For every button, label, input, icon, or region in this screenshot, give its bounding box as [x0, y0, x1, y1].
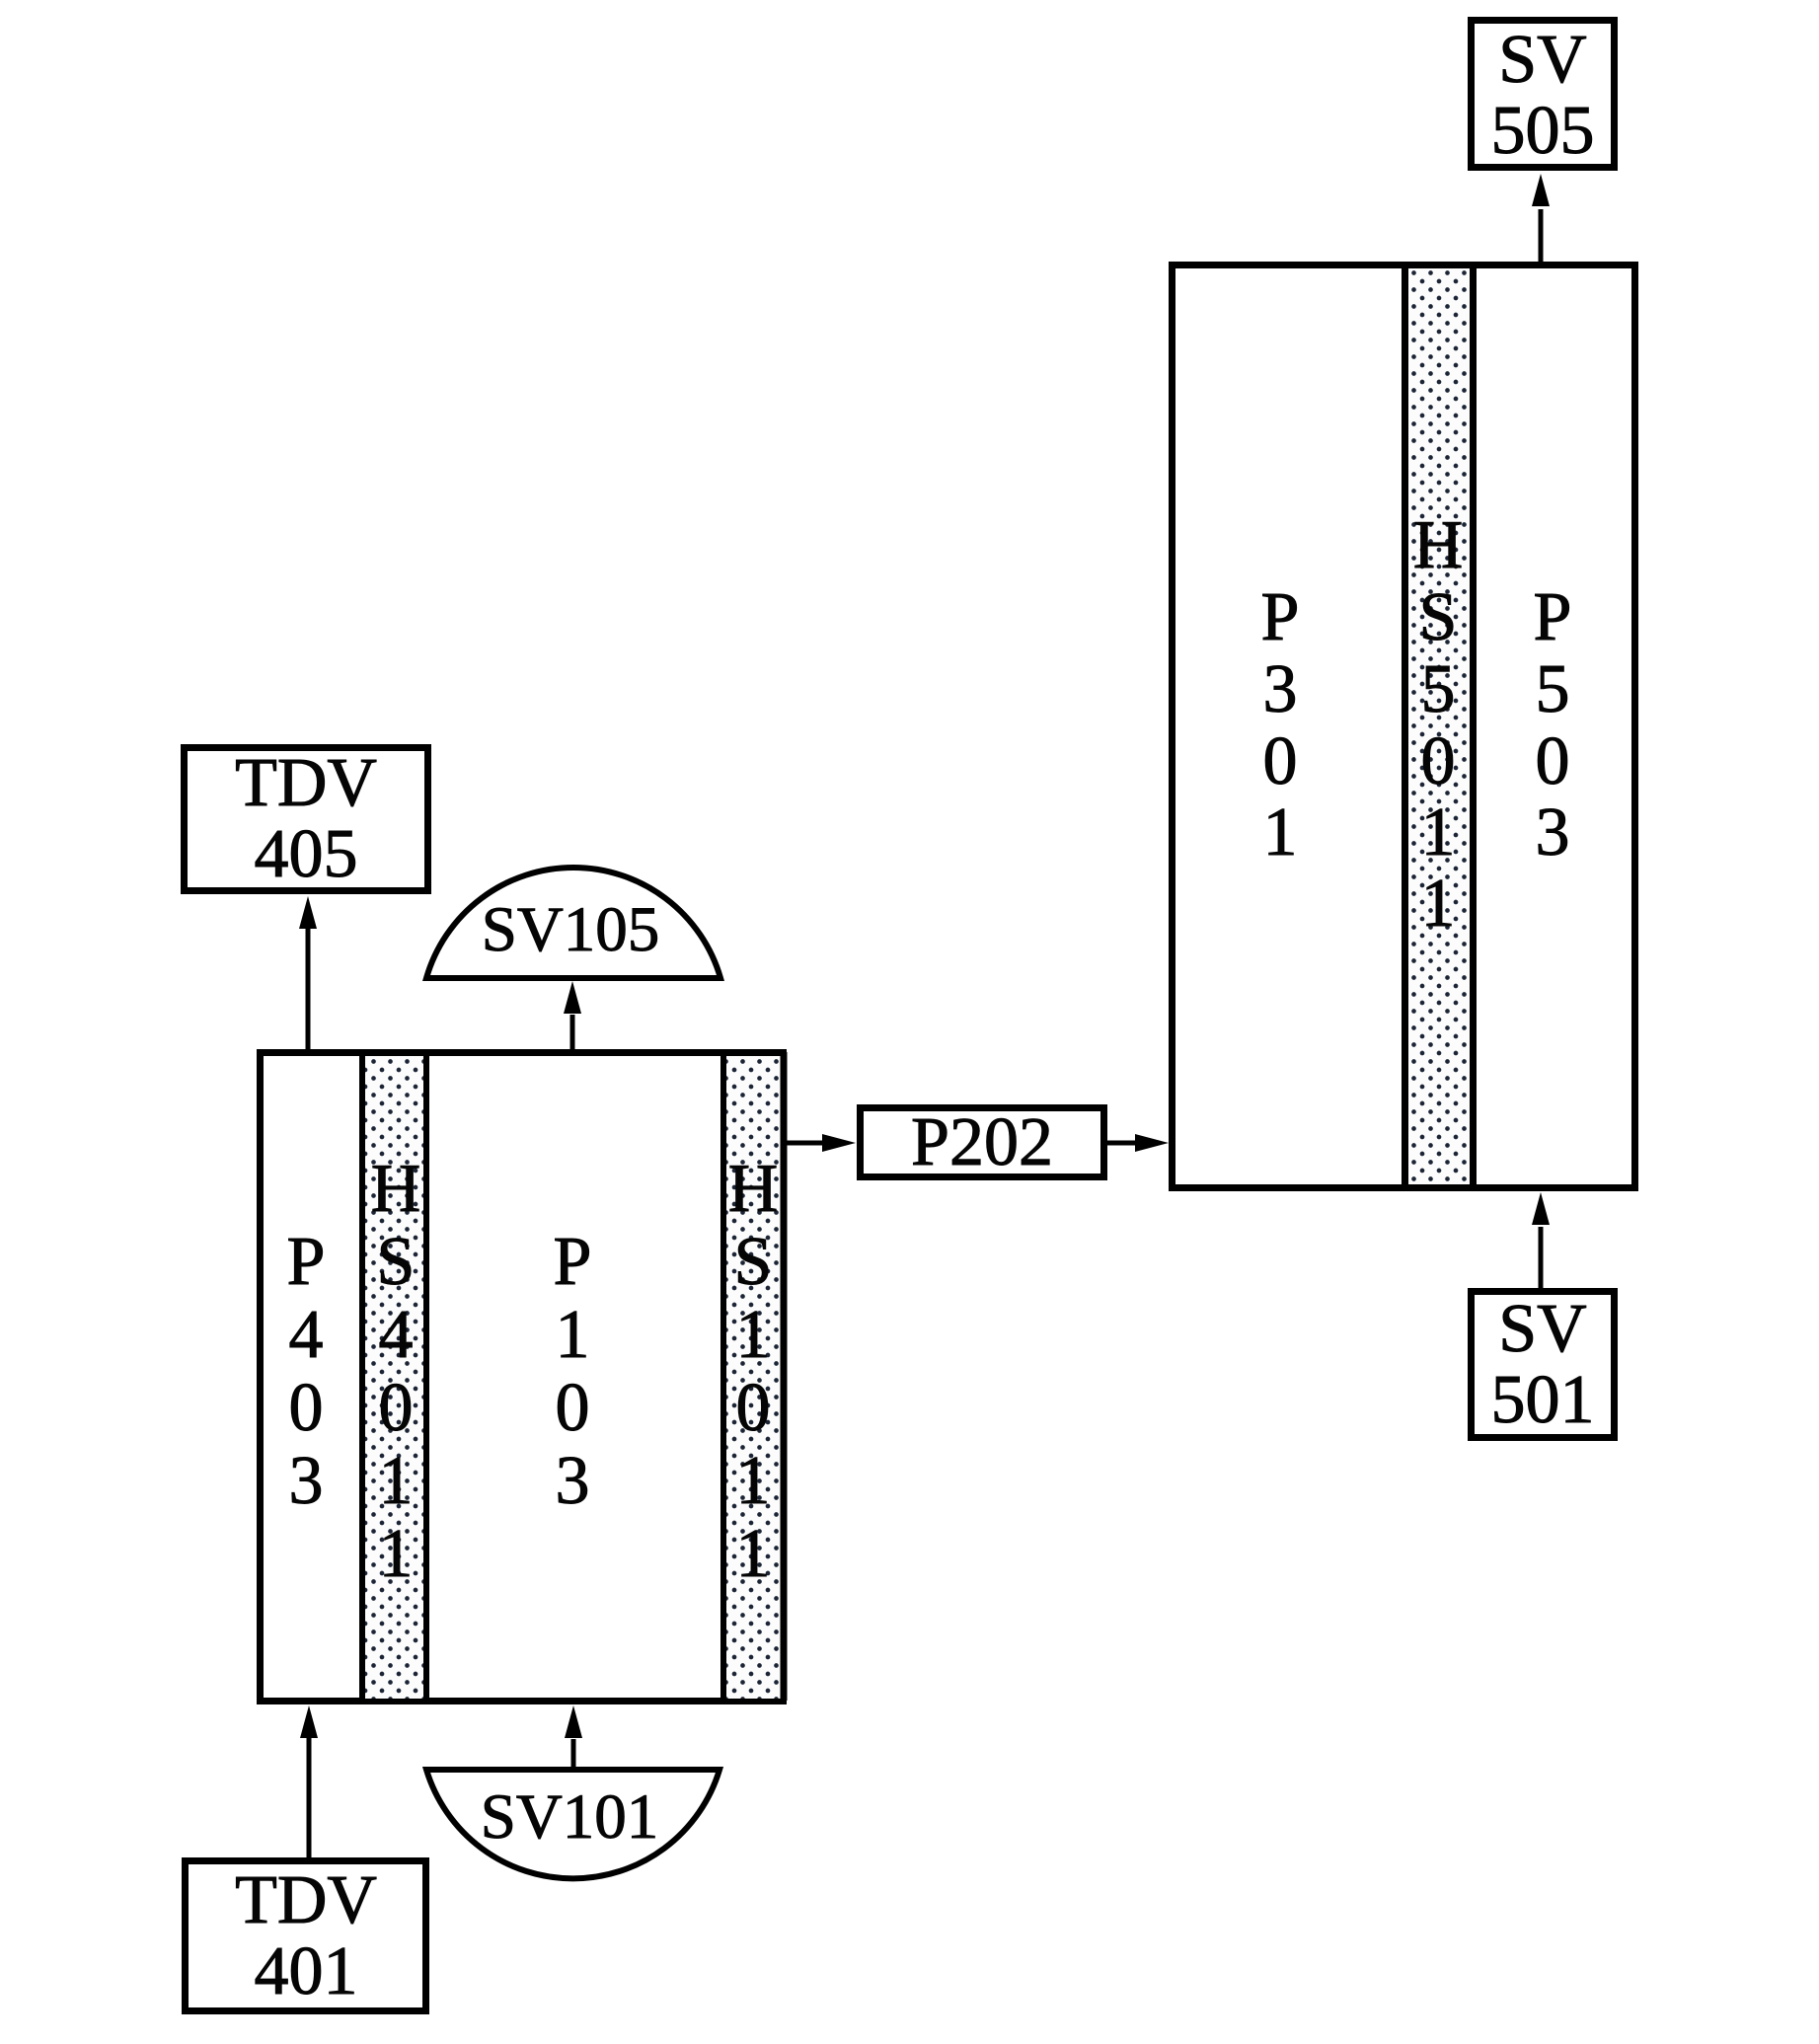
- svg-text:0: 0: [379, 1370, 414, 1446]
- svg-text:H: H: [728, 1151, 779, 1227]
- box TDV405: [185, 748, 428, 891]
- svg-text:3: 3: [289, 1443, 324, 1519]
- arrow vessel-left to TDV405: [299, 896, 317, 1049]
- svg-text:H: H: [371, 1151, 421, 1227]
- arrow vessel-left to P202: [785, 1134, 856, 1152]
- arrow vessel-right to SV505: [1532, 174, 1550, 262]
- label column P503: [1534, 579, 1572, 871]
- svg-text:5: 5: [1536, 651, 1570, 727]
- svg-text:3: 3: [1536, 795, 1570, 871]
- svg-text:SV: SV: [1498, 22, 1586, 98]
- bowl SV101: [426, 1770, 720, 1878]
- svg-text:0: 0: [1536, 723, 1570, 799]
- svg-text:0: 0: [556, 1370, 590, 1446]
- label SV501: [1491, 1291, 1595, 1438]
- svg-text:1: 1: [736, 1297, 771, 1373]
- svg-text:501: 501: [1491, 1362, 1595, 1438]
- svg-text:SV101: SV101: [481, 1781, 659, 1853]
- label column P301: [1261, 579, 1300, 871]
- svg-text:P: P: [554, 1224, 592, 1300]
- arrow SV101 to vessel-left: [565, 1705, 582, 1770]
- svg-text:0: 0: [1263, 723, 1298, 799]
- svg-text:TDV: TDV: [235, 745, 377, 821]
- svg-text:5: 5: [1421, 651, 1456, 727]
- vessel left (membrane module P403/P103): [261, 1053, 784, 1702]
- label column P403: [287, 1224, 326, 1519]
- dome SV105: [426, 868, 720, 978]
- label SV505: [1491, 22, 1595, 169]
- svg-text:1: 1: [736, 1443, 771, 1519]
- box TDV401: [186, 1861, 426, 2011]
- svg-text:1: 1: [736, 1516, 771, 1592]
- label TDV405: [235, 745, 377, 892]
- svg-text:1: 1: [1263, 795, 1298, 871]
- svg-text:505: 505: [1491, 93, 1595, 169]
- svg-text:H: H: [1413, 507, 1464, 583]
- membrane strip HS4011 (dotted): [362, 1052, 426, 1701]
- svg-text:P202: P202: [911, 1104, 1053, 1180]
- arrow vessel-left to SV105: [564, 981, 581, 1049]
- svg-text:0: 0: [736, 1370, 771, 1446]
- svg-text:P: P: [1261, 579, 1300, 655]
- svg-text:1: 1: [556, 1297, 590, 1373]
- arrow TDV401 to vessel-left: [300, 1705, 318, 1859]
- svg-text:SV: SV: [1498, 1291, 1586, 1367]
- label column HS1011: [728, 1151, 779, 1592]
- svg-text:P: P: [1534, 579, 1572, 655]
- vessel right (membrane module P301/P503): [1173, 265, 1635, 1188]
- membrane strip HS1011 (dotted): [723, 1052, 784, 1701]
- label column HS4011: [371, 1151, 421, 1592]
- svg-text:SV105: SV105: [482, 894, 660, 965]
- svg-text:405: 405: [255, 816, 358, 892]
- label column HS5011: [1413, 507, 1464, 942]
- box SV505: [1472, 21, 1615, 168]
- svg-text:1: 1: [1421, 866, 1456, 942]
- svg-text:401: 401: [255, 1933, 358, 2009]
- svg-text:1: 1: [1421, 795, 1456, 871]
- svg-text:1: 1: [379, 1516, 414, 1592]
- svg-text:S: S: [1419, 579, 1458, 655]
- label column P103: [554, 1224, 592, 1519]
- label TDV401: [235, 1862, 377, 2009]
- svg-text:3: 3: [556, 1443, 590, 1519]
- arrow P202 to vessel-right: [1107, 1134, 1169, 1152]
- svg-text:3: 3: [1263, 651, 1298, 727]
- svg-text:S: S: [734, 1224, 773, 1300]
- svg-text:4: 4: [379, 1297, 414, 1373]
- svg-text:4: 4: [289, 1297, 324, 1373]
- svg-text:S: S: [377, 1224, 416, 1300]
- svg-text:1: 1: [379, 1443, 414, 1519]
- svg-text:TDV: TDV: [235, 1862, 377, 1938]
- membrane strip HS5011 (dotted): [1405, 265, 1474, 1184]
- svg-text:P: P: [287, 1224, 326, 1300]
- svg-text:0: 0: [289, 1370, 324, 1446]
- arrow SV501 to vessel-right: [1532, 1192, 1550, 1288]
- box SV501: [1472, 1292, 1615, 1438]
- box P202: [861, 1108, 1104, 1177]
- svg-text:0: 0: [1421, 723, 1456, 799]
